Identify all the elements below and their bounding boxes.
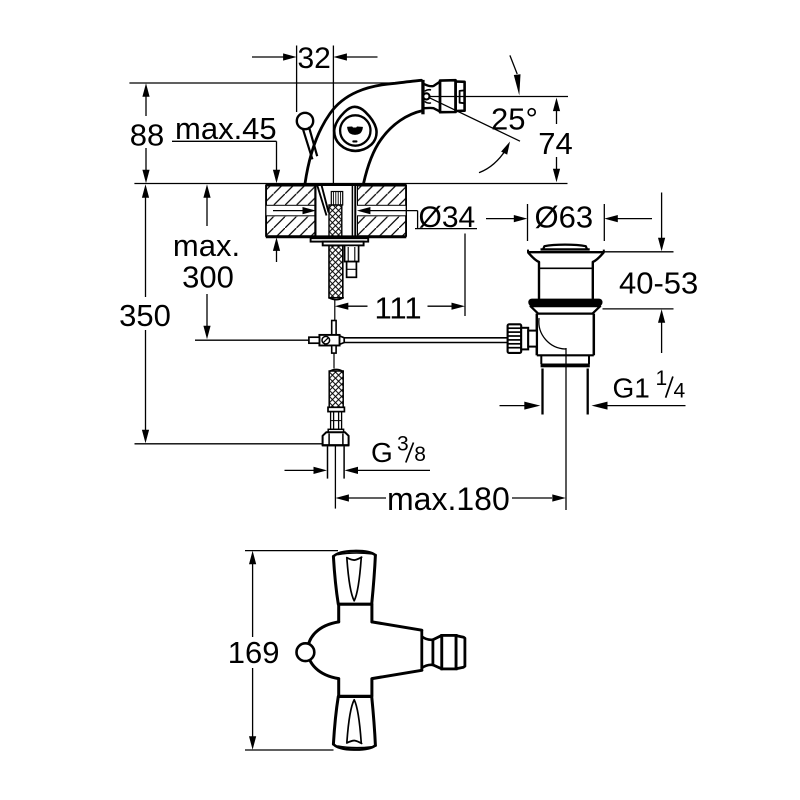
svg-text:74: 74 <box>538 126 572 161</box>
svg-text:3: 3 <box>397 432 409 455</box>
svg-text:88: 88 <box>130 117 164 152</box>
svg-text:4: 4 <box>674 380 686 403</box>
svg-text:25°: 25° <box>491 101 538 136</box>
svg-text:350: 350 <box>119 298 171 333</box>
svg-text:1: 1 <box>656 367 668 390</box>
svg-text:Ø34: Ø34 <box>419 201 476 234</box>
svg-text:max.45: max.45 <box>175 111 277 146</box>
svg-text:8: 8 <box>414 443 426 466</box>
svg-text:40-53: 40-53 <box>619 265 698 300</box>
svg-text:max.: max. <box>173 228 240 263</box>
svg-text:max.180: max.180 <box>387 481 510 517</box>
svg-text:Ø63: Ø63 <box>535 200 594 235</box>
svg-text:169: 169 <box>228 635 280 670</box>
svg-text:111: 111 <box>374 291 421 326</box>
svg-text:G: G <box>371 437 393 468</box>
svg-text:300: 300 <box>182 259 234 294</box>
svg-text:32: 32 <box>298 42 331 75</box>
svg-text:G1: G1 <box>613 373 650 404</box>
